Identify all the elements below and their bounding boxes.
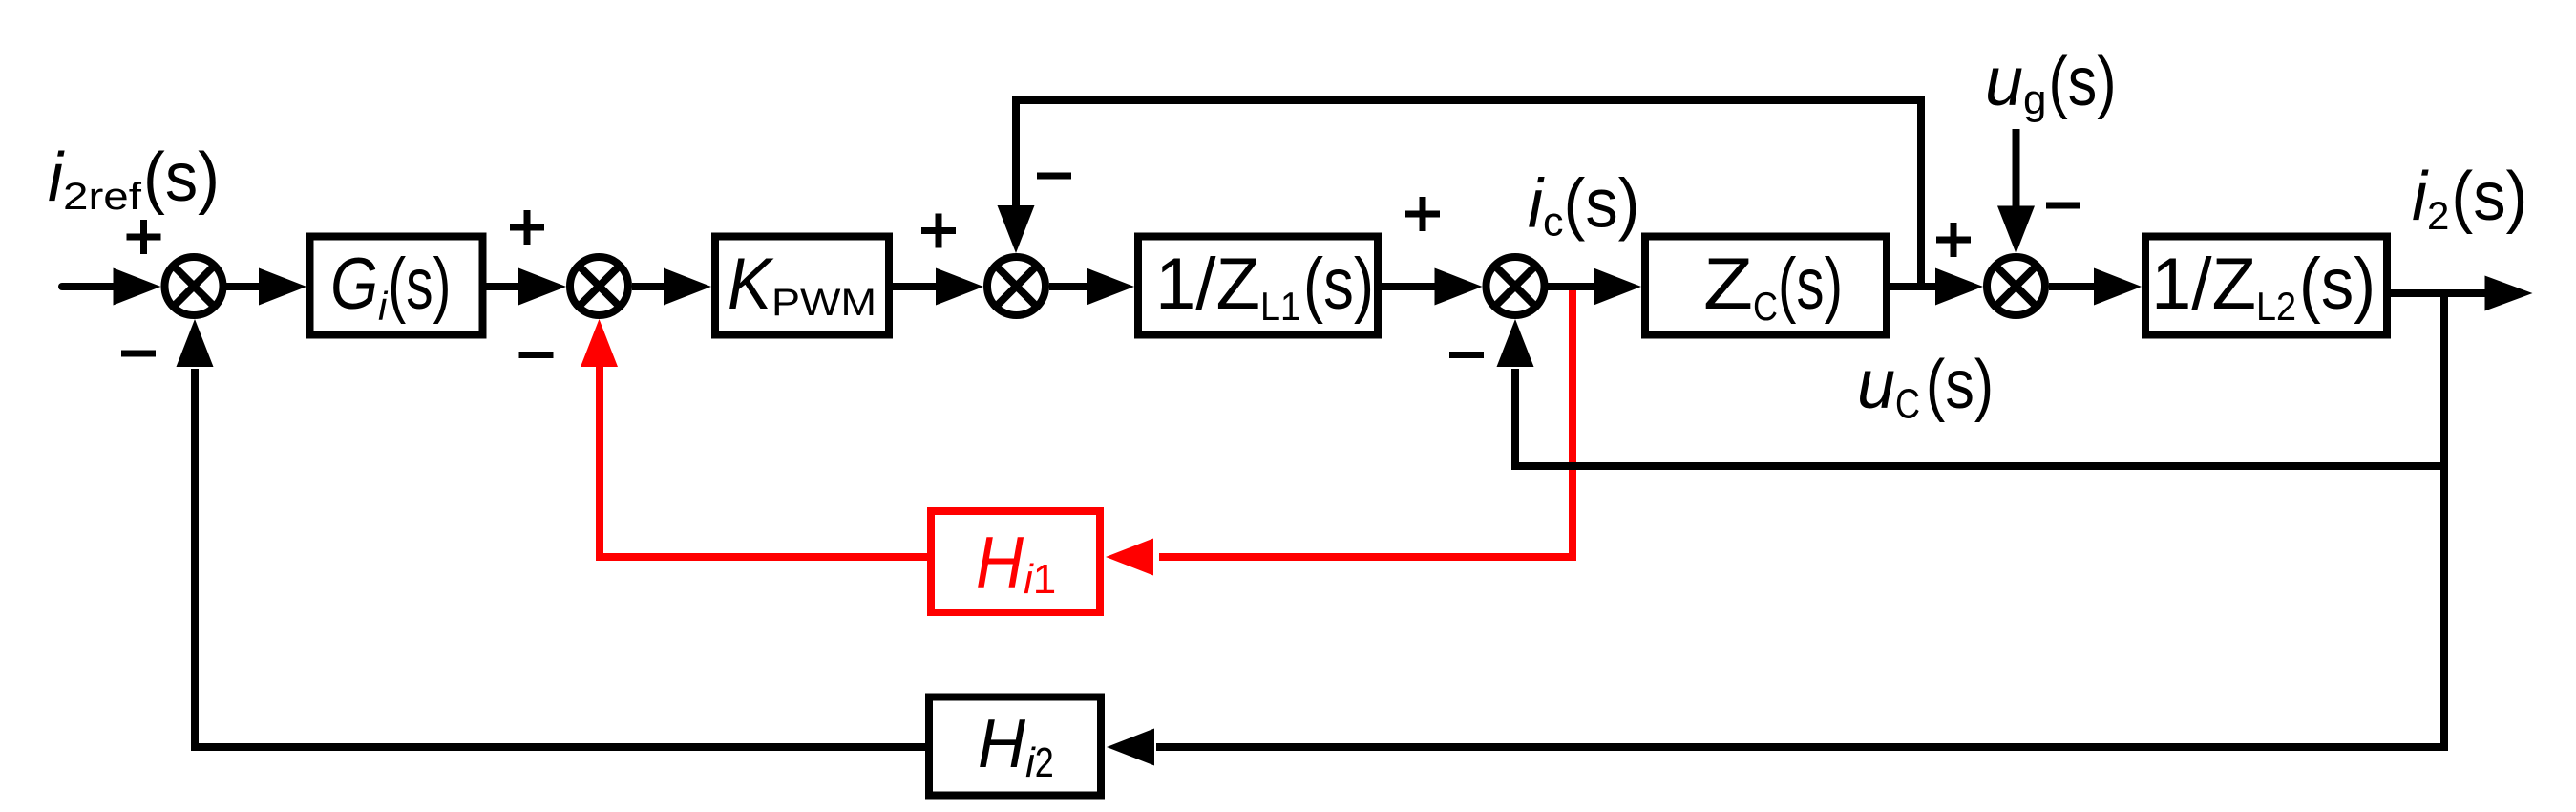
wire summer3 to ZL1: [1049, 283, 1089, 290]
wire input i2ref: [62, 283, 116, 290]
arrow into summer3: [936, 268, 983, 306]
block Hi2: [929, 697, 1101, 796]
arrow into summer2: [518, 268, 566, 306]
arrow into Hi2: [1107, 729, 1154, 766]
minus sign summer3 top: [1037, 173, 1071, 180]
arrow into Kpwm: [664, 268, 711, 306]
plus sign summer5: [1936, 223, 1971, 257]
arrow into summer1: [114, 268, 161, 306]
wire red tap from ic node down: [1159, 287, 1573, 557]
summer 5: [1987, 257, 2045, 315]
wire ZL1 to summer4: [1382, 283, 1438, 290]
plus sign summer4: [1405, 197, 1440, 231]
wire ug input arrow stem: [2013, 129, 2020, 207]
wire Zc to summer5: [1890, 283, 1939, 290]
arrow into summer4: [1435, 268, 1483, 306]
arrow up into summer4 bottom: [1497, 319, 1534, 367]
wire summer4 to Zc: [1548, 283, 1596, 290]
plus sign summer1: [127, 220, 161, 254]
arrowheads red: [581, 319, 1153, 576]
arrow up into summer1 bottom: [177, 319, 214, 367]
svg-text:Hi2: Hi2: [978, 706, 1054, 786]
minus sign summer4: [1449, 352, 1484, 358]
arrow output i2: [2485, 276, 2533, 311]
arrow down into summer3 top: [998, 205, 1035, 253]
svg-text:i2ref(s): i2ref(s): [48, 139, 220, 218]
plus sign summer2: [510, 210, 544, 245]
wire Hi2 to summer1: [195, 369, 925, 747]
wire red from Hi1 to summer 2: [600, 365, 927, 557]
wire output branch down to Hi2: [1156, 293, 2444, 747]
arrow into ZL2: [2094, 268, 2142, 306]
svg-text:ic(s): ic(s): [1528, 166, 1640, 246]
minus sign summer5: [2046, 203, 2080, 209]
svg-text:1/ZL1(s): 1/ZL1(s): [1155, 244, 1374, 329]
arrow into ZL1: [1087, 268, 1134, 306]
arrow red up into summer2 bottom: [581, 319, 618, 367]
arrow into Gi: [259, 268, 306, 306]
arrow into summer5: [1935, 268, 1983, 306]
minus sign summer2: [519, 352, 554, 358]
block Zc: [1645, 237, 1887, 335]
arrow into Hi1: [1106, 539, 1153, 576]
block 1/ZL2: [2145, 237, 2387, 335]
svg-text:KPWM: KPWM: [728, 244, 876, 325]
svg-text:1/ZL2(s): 1/ZL2(s): [2151, 244, 2375, 329]
arrowheads black: [114, 205, 2533, 766]
summer 3: [987, 257, 1045, 315]
svg-text:uC(s): uC(s): [1857, 347, 1994, 428]
summer 1: [165, 257, 223, 315]
plus sign summer3: [921, 214, 956, 248]
wire Kpwm to summer3: [893, 283, 940, 290]
arrow ug down into summer5: [1997, 206, 2035, 254]
block Gi(s): [310, 237, 483, 335]
minus sign summer1: [121, 351, 156, 357]
wire i2 to summer4 minus: [1515, 369, 2444, 466]
arrow into Zc: [1594, 268, 1641, 306]
block Kpwm: [715, 237, 889, 335]
block Hi1 red: [931, 511, 1100, 612]
svg-text:Hi1: Hi1: [976, 523, 1056, 604]
block 1/ZL1: [1138, 237, 1378, 335]
svg-text:Gi(s): Gi(s): [330, 244, 451, 329]
wire summer2 to Kpwm: [632, 283, 667, 290]
wire top feedback uC to summer3: [1016, 100, 1921, 287]
summer 4: [1487, 257, 1545, 315]
svg-text:ug(s): ug(s): [1985, 44, 2117, 123]
svg-text:ZC(s): ZC(s): [1703, 244, 1843, 329]
wire summer1 to Gi: [226, 283, 263, 290]
svg-text:i2(s): i2(s): [2412, 159, 2527, 238]
wire Gi to summer2: [486, 283, 522, 290]
summer 2: [570, 257, 628, 315]
wire summer5 to ZL2: [2049, 283, 2097, 290]
wire ZL2 to output: [2391, 289, 2486, 297]
